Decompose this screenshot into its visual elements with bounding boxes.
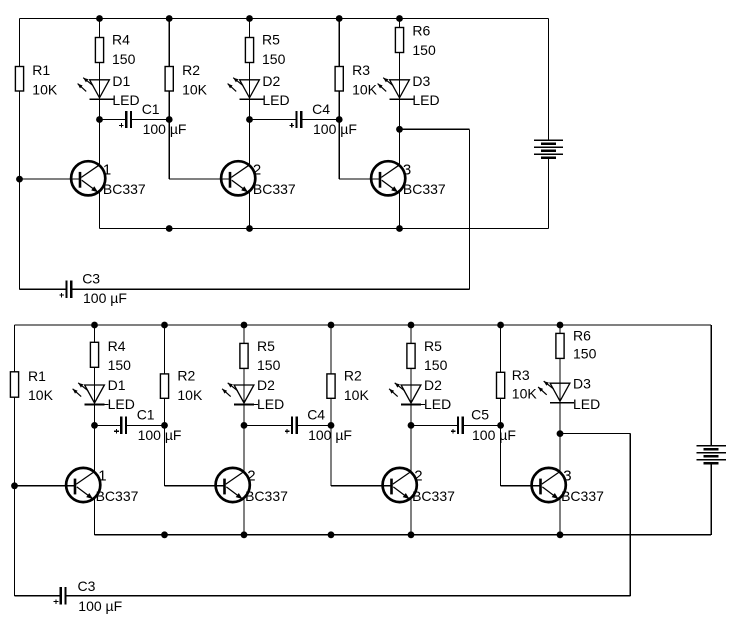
node: top rail / R3 (circuit 2) <box>497 322 504 329</box>
svg-text:10K: 10K <box>177 387 203 403</box>
wire: top V+ rail (circuit 2) <box>15 324 712 326</box>
svg-text:100 µF: 100 µF <box>83 290 127 306</box>
node: C4 / second R2 / Q3 base (circuit 2) <box>328 422 335 429</box>
resistor R6 150 (circuit 1) <box>395 28 403 53</box>
node: Q3 emitter on ground rail (circuit 1) <box>396 225 403 232</box>
wire: Q1 emitter to ground rail <box>99 191 101 228</box>
wire: Q3 emitter to ground rail (circuit 2) <box>410 498 412 535</box>
battery B1 (circuit 2) <box>697 445 726 447</box>
wire: Q2 base horizontal (circuit 2) <box>165 485 226 487</box>
svg-text:150: 150 <box>262 51 286 67</box>
svg-text:R6: R6 <box>573 327 591 343</box>
node: Q1 base junction on left rail (circuit 2) <box>11 482 18 489</box>
wire: top rail to R3 <box>338 19 340 67</box>
svg-text:D2: D2 <box>424 377 442 393</box>
svg-text:LED: LED <box>412 92 439 108</box>
node: Q1 collector / C1 (circuit 1) <box>96 116 103 123</box>
node: Q2 collector / C4 (circuit 1) <box>246 116 253 123</box>
svg-text:LED: LED <box>262 92 289 108</box>
LED D2 second (circuit 2) <box>401 385 421 403</box>
svg-text:BC337: BC337 <box>403 181 446 197</box>
wire: feedback horizontal from Q3 collector <box>400 128 470 130</box>
wire: Q1 base from left rail (circuit 2) <box>15 485 76 487</box>
wire: Q3 collector to C5 (circuit 2) <box>411 424 458 426</box>
wire: Q2 collector to C4 <box>250 119 297 121</box>
wire: R4 to D1 to Q1 collector <box>99 63 101 166</box>
node: top rail / R6 (circuit 1) <box>396 15 403 22</box>
svg-text:R3: R3 <box>512 367 530 383</box>
wire: Q3 emitter to ground rail <box>399 191 401 228</box>
svg-text:R2: R2 <box>177 368 195 384</box>
node: top rail / R2 (circuit 2) <box>161 322 168 329</box>
svg-text:10K: 10K <box>344 387 370 403</box>
wire: C3 row right segment (circuit 2) <box>66 595 630 597</box>
wire: R3 to Q4 base node (circuit 2) <box>500 398 502 486</box>
node: Q3 collector / feedback (circuit 1) <box>396 126 403 133</box>
wire: Q2 collector to C4 (circuit 2) <box>244 424 292 426</box>
svg-text:1: 1 <box>98 468 106 485</box>
svg-text:D3: D3 <box>412 73 430 89</box>
svg-text:LED: LED <box>257 396 284 412</box>
bottom circuit 2: 4-stage LED flasher <box>10 322 726 615</box>
node: Q1 base junction on left rail (circuit 1) <box>16 176 23 183</box>
wire: Q2 emitter to ground rail <box>249 191 251 228</box>
wire: C4 to R3 column <box>301 119 339 121</box>
svg-text:D1: D1 <box>108 377 126 393</box>
node: Q4 collector / feedback (circuit 2) <box>557 430 564 437</box>
svg-text:1: 1 <box>103 162 111 179</box>
node: Q2 emitter on ground rail (circuit 2) <box>241 531 248 538</box>
svg-text:C1: C1 <box>142 101 160 117</box>
LED D1 (circuit 1) <box>90 80 110 98</box>
svg-text:D3: D3 <box>573 376 591 392</box>
wire: top rail to R5 <box>249 19 251 38</box>
capacitor C1 100uF (circuit 2) <box>120 417 122 434</box>
capacitor C1 100uF (circuit 1) <box>125 111 127 128</box>
node: Q3 collector / C5 (circuit 2) <box>408 422 415 429</box>
capacitor C3 100uF (circuit 2) <box>60 587 62 604</box>
node: top rail / R5 (circuit 1) <box>246 15 253 22</box>
svg-text:R5: R5 <box>424 338 442 354</box>
node: Q4 emitter on ground rail (circuit 2) <box>557 531 564 538</box>
svg-text:BC337: BC337 <box>96 488 139 504</box>
svg-text:100 µF: 100 µF <box>78 598 122 614</box>
wire: R2 to Q2 base node (circuit 2) <box>164 398 166 486</box>
svg-text:100 µF: 100 µF <box>143 121 187 137</box>
transistor Q1 BC337 (circuit 1) <box>71 161 105 195</box>
svg-text:10K: 10K <box>352 81 378 97</box>
resistor R2 10K (circuit 2) <box>160 374 168 398</box>
wire: Q1 collector to C1 (circuit 2) <box>95 424 122 426</box>
svg-text:R3: R3 <box>352 62 370 78</box>
wire: right rail lower from battery (circuit 1) <box>548 158 550 229</box>
svg-text:2: 2 <box>414 468 422 485</box>
svg-text:10K: 10K <box>32 81 58 97</box>
resistor R2 10K (circuit 1) <box>165 67 173 92</box>
wire: Q1 base from left rail <box>20 178 81 180</box>
svg-text:2: 2 <box>247 468 255 485</box>
LED D2 (circuit 2) <box>234 385 254 403</box>
wire: C4 to second R2 column (circuit 2) <box>297 424 332 426</box>
svg-text:BC337: BC337 <box>245 488 288 504</box>
wire: top rail to R5 (circuit 2) <box>243 325 245 343</box>
node: Q1 collector / C1 (circuit 2) <box>91 422 98 429</box>
svg-text:3: 3 <box>403 162 411 179</box>
svg-text:150: 150 <box>412 42 436 58</box>
svg-text:150: 150 <box>112 51 136 67</box>
transistor Q1 BC337 (circuit 2) <box>66 468 100 502</box>
node: Q2 collector / C4 (circuit 2) <box>241 422 248 429</box>
wire: feedback vertical down (circuit 1) <box>469 129 471 289</box>
svg-text:R4: R4 <box>108 338 126 354</box>
svg-text:100 µF: 100 µF <box>472 427 516 443</box>
resistor R6 150 (circuit 2) <box>556 333 564 358</box>
wire: R5 to D2 to Q2 collector (circuit 2) <box>243 368 245 472</box>
node: top rail / second R5 (circuit 2) <box>408 322 415 329</box>
svg-text:R2: R2 <box>344 368 362 384</box>
svg-text:10K: 10K <box>182 81 208 97</box>
node: top rail / second R2 (circuit 2) <box>328 322 335 329</box>
wire: top rail to R2 (circuit 2) <box>164 325 166 374</box>
wire: C3 row left segment (circuit 1) <box>20 288 66 290</box>
battery B1 (circuit 1) <box>534 139 563 141</box>
wire: top rail to second R2 (circuit 2) <box>330 325 332 374</box>
wire: right rail upper to battery (circuit 2) <box>710 325 712 446</box>
resistor R4 150 (circuit 1) <box>95 38 103 63</box>
svg-text:150: 150 <box>108 357 132 373</box>
node: top rail / R2 (circuit 1) <box>166 15 173 22</box>
LED D2 (circuit 1) <box>240 80 260 98</box>
wire: R5 to D2 to Q2 collector <box>249 63 251 166</box>
wire: C3 row right segment (circuit 1) <box>72 288 470 290</box>
svg-text:2: 2 <box>253 162 261 179</box>
svg-text:BC337: BC337 <box>103 181 146 197</box>
wire: top rail to R6 (circuit 2) <box>559 325 561 333</box>
node: Q3 emitter on ground rail (circuit 2) <box>408 531 415 538</box>
wire: top rail to R2 <box>168 19 170 67</box>
svg-text:LED: LED <box>573 396 600 412</box>
wire: C3 row left segment (circuit 2) <box>15 595 61 597</box>
svg-text:LED: LED <box>108 396 135 412</box>
node: stray junction dot on ground rail below R2 (circuit 1) <box>166 225 173 232</box>
transistor Q2 BC337 (circuit 1) <box>221 161 255 195</box>
resistor R5 150 (circuit 2) <box>240 343 248 368</box>
resistor R1 10K (circuit 1) <box>15 67 23 92</box>
wire: C5 to R3 column (circuit 2) <box>463 424 501 426</box>
wire: top rail to second R5 (circuit 2) <box>410 325 412 343</box>
wire: feedback vertical down (circuit 2) <box>629 434 631 596</box>
wire: top rail to R4 <box>99 19 101 38</box>
svg-text:100 µF: 100 µF <box>313 121 357 137</box>
LED D1 (circuit 2) <box>85 385 105 403</box>
wire: Q3 base horizontal (circuit 2) <box>331 485 392 487</box>
node: top rail / R3 (circuit 1) <box>336 15 343 22</box>
wire: feedback horizontal from Q4 collector (circuit 2) <box>560 433 630 435</box>
svg-text:R4: R4 <box>112 31 130 47</box>
wire: Q1 emitter to ground rail (circuit 2) <box>94 498 96 535</box>
wire: left rail (circuit 2) <box>14 325 16 596</box>
wire: top rail to R6 <box>399 19 401 28</box>
wire: Q2 base horizontal <box>169 178 231 180</box>
svg-text:R2: R2 <box>182 62 200 78</box>
resistor R5 second 150 (circuit 2) <box>407 343 415 368</box>
resistor R4 150 (circuit 2) <box>90 342 98 367</box>
wire: right rail upper to battery (circuit 1) <box>548 19 550 141</box>
wire: Q4 base horizontal (circuit 2) <box>501 485 542 487</box>
node: Q2 emitter on ground rail (circuit 1) <box>246 225 253 232</box>
wire: R6 to D3 to Q3 collector <box>399 53 401 166</box>
node: top rail / R4 (circuit 1) <box>96 15 103 22</box>
LED D3 (circuit 1) <box>390 80 410 98</box>
wire: Q2 emitter to ground rail (circuit 2) <box>243 498 245 535</box>
svg-text:BC337: BC337 <box>561 488 604 504</box>
wire: left rail (circuit 1) <box>19 19 21 290</box>
resistor R3 10K (circuit 2) <box>497 372 505 398</box>
resistor R5 150 (circuit 1) <box>245 38 253 63</box>
svg-text:150: 150 <box>573 345 597 361</box>
svg-text:150: 150 <box>424 357 448 373</box>
svg-text:BC337: BC337 <box>412 488 455 504</box>
wire: R2 to Q2 base node <box>168 91 170 179</box>
wire: top rail to R4 (circuit 2) <box>94 325 96 342</box>
node: C1 / R2 / Q2 base (circuit 1) <box>166 116 173 123</box>
resistor R2 second 10K (circuit 2) <box>327 374 335 398</box>
wire: C1 to R2 column <box>131 119 169 121</box>
svg-text:R1: R1 <box>28 368 46 384</box>
wire: Q4 emitter to ground rail (circuit 2) <box>559 498 561 535</box>
wire: emitter ground rail (circuit 2) <box>95 534 712 536</box>
wire: top rail to R3 (circuit 2) <box>500 325 502 372</box>
node: top rail / R6 (circuit 2) <box>557 322 564 329</box>
wire: second R2 to Q3 base node (circuit 2) <box>330 398 332 486</box>
wire: Q1 collector to C1 <box>100 119 127 121</box>
svg-text:C4: C4 <box>312 101 330 117</box>
svg-text:LED: LED <box>112 92 139 108</box>
svg-text:10K: 10K <box>512 386 538 402</box>
resistor R3 10K (circuit 1) <box>335 67 343 92</box>
svg-text:3: 3 <box>563 468 571 485</box>
svg-text:C5: C5 <box>471 407 489 423</box>
svg-text:D2: D2 <box>257 377 275 393</box>
wire: R4 to D1 to Q1 collector (circuit 2) <box>94 367 96 472</box>
svg-text:100 µF: 100 µF <box>308 427 352 443</box>
svg-text:C3: C3 <box>78 578 96 594</box>
svg-text:R5: R5 <box>262 31 280 47</box>
node: C1 / R2 / Q2 base (circuit 2) <box>161 422 168 429</box>
wire: R6 to D3 to Q4 collector (circuit 2) <box>559 358 561 472</box>
transistor Q3 BC337 (circuit 1) <box>371 161 405 195</box>
svg-text:150: 150 <box>257 357 281 373</box>
resistor R1 10K (circuit 2) <box>10 372 18 397</box>
node: stray junction dot on ground rail below R2 (circuit 2) <box>161 531 168 538</box>
node: top rail / R4 (circuit 2) <box>91 322 98 329</box>
top circuit 1: 3-stage LED flasher <box>15 15 563 306</box>
LED D3 (circuit 2) <box>550 383 570 401</box>
svg-text:D1: D1 <box>112 73 130 89</box>
svg-text:R6: R6 <box>412 22 430 38</box>
capacitor C3 100uF (circuit 1) <box>65 281 67 298</box>
capacitor C4 100uF (circuit 1) <box>295 111 297 128</box>
wire: right rail lower from battery (circuit 2) <box>710 463 712 535</box>
svg-text:R5: R5 <box>257 338 275 354</box>
wire: C1 to R2 column (circuit 2) <box>126 424 165 426</box>
wire: R3 to Q3 base node <box>338 91 340 179</box>
wire: Q3 base horizontal <box>339 178 381 180</box>
transistor Q3 BC337 (circuit 2) <box>383 468 417 502</box>
capacitor C4 100uF (circuit 2) <box>291 417 293 434</box>
wire: emitter ground rail (circuit 1) <box>100 228 549 230</box>
svg-text:100 µF: 100 µF <box>138 427 182 443</box>
transistor Q2 BC337 (circuit 2) <box>216 468 250 502</box>
wire: top V+ rail (circuit 1) <box>20 18 549 20</box>
node: top rail / R5 (circuit 2) <box>241 322 248 329</box>
svg-text:R1: R1 <box>32 62 50 78</box>
node: C5 / R3 / Q4 base (circuit 2) <box>497 422 504 429</box>
transistor Q4 BC337 (circuit 2) <box>532 468 566 502</box>
capacitor C5 100uF (circuit 2) <box>457 417 459 434</box>
svg-text:10K: 10K <box>28 387 54 403</box>
svg-text:C3: C3 <box>82 270 100 286</box>
svg-text:D2: D2 <box>262 73 280 89</box>
svg-text:C1: C1 <box>137 407 155 423</box>
node: C4 / R3 / Q3 base (circuit 1) <box>336 116 343 123</box>
svg-text:BC337: BC337 <box>253 181 296 197</box>
wire: second R5 to D2 to Q3 collector (circuit 2) <box>410 368 412 472</box>
svg-text:LED: LED <box>424 396 451 412</box>
node: junction dot on ground rail below second R2 (circuit 2) <box>328 531 335 538</box>
svg-text:C4: C4 <box>307 407 325 423</box>
